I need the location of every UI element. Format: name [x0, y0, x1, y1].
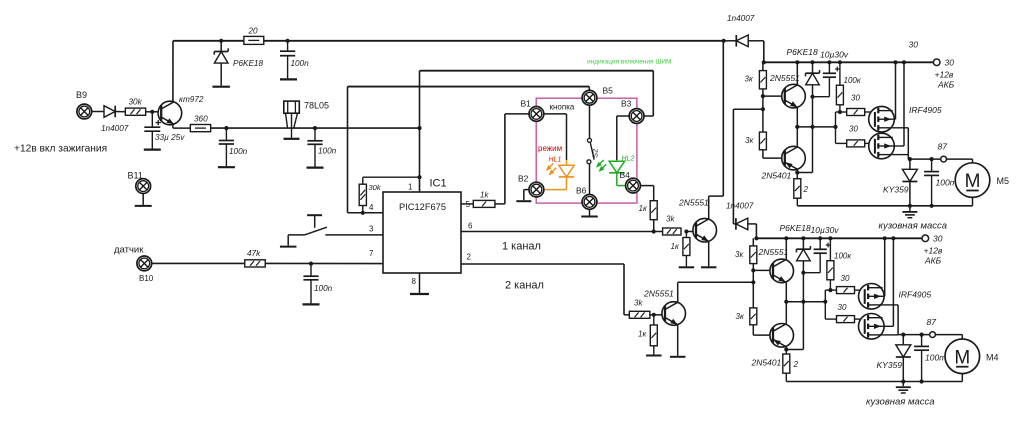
svg-text:1n4007: 1n4007 — [727, 14, 755, 23]
svg-text:KY359: KY359 — [883, 185, 909, 195]
svg-text:100п: 100п — [925, 353, 944, 363]
svg-text:87: 87 — [938, 142, 948, 152]
svg-text:20: 20 — [248, 27, 259, 36]
svg-text:3к: 3к — [745, 136, 754, 145]
svg-text:2: 2 — [793, 360, 799, 369]
svg-text:30: 30 — [851, 94, 860, 103]
svg-text:30: 30 — [838, 303, 847, 312]
svg-text:1 канал: 1 канал — [502, 241, 541, 253]
svg-text:33µ 25v: 33µ 25v — [155, 133, 185, 142]
svg-text:3к: 3к — [745, 75, 754, 84]
svg-text:30: 30 — [909, 40, 919, 50]
svg-text:IRF4905: IRF4905 — [909, 105, 942, 115]
svg-text:M: M — [965, 171, 981, 192]
svg-text:АКБ: АКБ — [924, 256, 942, 266]
svg-text:6: 6 — [468, 222, 473, 231]
svg-text:режим: режим — [538, 144, 562, 153]
svg-text:30: 30 — [841, 274, 850, 283]
svg-text:кузовная масса: кузовная масса — [866, 397, 935, 408]
svg-text:HL1: HL1 — [549, 157, 562, 164]
svg-text:30k: 30k — [369, 183, 382, 192]
svg-text:АКБ: АКБ — [937, 80, 955, 90]
svg-text:+12в: +12в — [935, 70, 954, 80]
svg-text:кнопка: кнопка — [550, 103, 575, 112]
svg-text:IC1: IC1 — [430, 178, 447, 190]
svg-text:M: M — [954, 347, 970, 368]
svg-text:3к: 3к — [736, 312, 745, 321]
svg-text:47k: 47k — [247, 249, 261, 258]
svg-text:3k: 3k — [666, 215, 675, 224]
svg-text:2N5551: 2N5551 — [643, 289, 674, 299]
svg-text:7: 7 — [369, 249, 374, 258]
svg-text:360: 360 — [194, 115, 208, 124]
svg-text:2N5551: 2N5551 — [678, 198, 709, 208]
svg-text:кузовная масса: кузовная масса — [879, 221, 948, 232]
svg-text:3k: 3k — [634, 299, 643, 308]
svg-text:кт972: кт972 — [179, 95, 204, 104]
svg-text:P6KE18: P6KE18 — [780, 223, 811, 233]
svg-text:8: 8 — [412, 277, 417, 286]
svg-text:2N5401: 2N5401 — [761, 171, 792, 181]
svg-text:2N5551: 2N5551 — [758, 247, 789, 257]
svg-text:2: 2 — [803, 185, 809, 194]
svg-text:индикация включения ШИМ: индикация включения ШИМ — [587, 59, 671, 66]
svg-text:10µ30v: 10µ30v — [811, 225, 840, 235]
svg-text:1к: 1к — [638, 330, 647, 339]
svg-text:1n4007: 1n4007 — [726, 202, 754, 211]
svg-text:1к: 1к — [639, 204, 648, 213]
svg-text:30: 30 — [945, 58, 955, 68]
svg-text:B2: B2 — [518, 174, 529, 184]
svg-text:87: 87 — [927, 317, 937, 327]
svg-text:B9: B9 — [76, 90, 87, 100]
svg-text:P6KE18: P6KE18 — [233, 59, 263, 68]
svg-text:30k: 30k — [129, 98, 143, 107]
svg-text:M5: M5 — [997, 176, 1010, 186]
svg-text:1к: 1к — [671, 242, 680, 251]
svg-text:KY359: KY359 — [877, 360, 903, 370]
svg-text:датчик: датчик — [114, 245, 144, 256]
svg-text:S2: S2 — [591, 149, 600, 158]
svg-text:P6KE18: P6KE18 — [787, 47, 818, 57]
svg-text:30: 30 — [849, 125, 858, 134]
svg-text:B4: B4 — [620, 170, 631, 180]
svg-text:100n: 100n — [229, 147, 248, 156]
svg-text:+12в: +12в — [924, 246, 943, 256]
svg-text:3: 3 — [369, 225, 374, 234]
svg-text:100к: 100к — [844, 76, 862, 85]
svg-text:+12в вкл зажигания: +12в вкл зажигания — [14, 144, 107, 155]
svg-text:2: 2 — [467, 253, 472, 262]
svg-text:100к: 100к — [834, 252, 852, 261]
svg-text:IRF4905: IRF4905 — [899, 290, 932, 300]
svg-text:2 канал: 2 канал — [505, 280, 544, 292]
svg-text:M4: M4 — [986, 353, 999, 363]
svg-text:HL2: HL2 — [622, 156, 635, 163]
svg-text:2N5401: 2N5401 — [751, 358, 782, 368]
svg-text:B5: B5 — [603, 86, 614, 96]
svg-text:100n: 100n — [291, 59, 310, 68]
svg-text:10µ30v: 10µ30v — [820, 50, 849, 60]
svg-text:B6: B6 — [576, 186, 587, 196]
svg-text:1k: 1k — [480, 191, 489, 200]
svg-text:78L05: 78L05 — [304, 101, 329, 111]
svg-text:B11: B11 — [128, 171, 143, 181]
svg-text:B1: B1 — [521, 99, 532, 109]
svg-text:3к: 3к — [735, 250, 744, 259]
svg-text:100п: 100п — [936, 178, 955, 188]
svg-text:5: 5 — [466, 200, 471, 209]
svg-text:B10: B10 — [139, 274, 154, 283]
svg-text:100n: 100n — [318, 147, 337, 156]
svg-text:2N5551: 2N5551 — [769, 73, 800, 83]
svg-text:100n: 100n — [314, 284, 333, 293]
svg-text:30: 30 — [933, 234, 943, 244]
svg-text:PIC12F675: PIC12F675 — [399, 202, 446, 212]
svg-text:4: 4 — [369, 203, 374, 212]
svg-text:1: 1 — [408, 183, 413, 192]
svg-text:1n4007: 1n4007 — [101, 124, 129, 133]
svg-text:B3: B3 — [621, 99, 632, 109]
